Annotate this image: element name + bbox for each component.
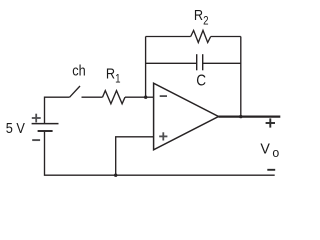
wire: op-amp output to right edge [219,115,281,117]
node: inverting input junction [144,96,147,99]
label R2 [194,6,209,27]
label R1 [106,64,121,85]
wire: battery negative terminal down to bottom rail [45,132,275,176]
label 5 V [6,119,26,136]
op-amp minus input sign [160,95,167,97]
wire: R2 right lead [211,36,241,38]
wire: R2 left lead [146,36,191,38]
resistor R2 [191,30,211,42]
wire: R1 to inverting node [125,96,146,98]
svg-text:C: C [196,72,206,89]
capacitor C plates [197,54,203,70]
node: output junction [239,115,242,118]
svg-text:5 V: 5 V [6,119,26,136]
wire: feedback right branch down to output node [240,37,242,117]
battery V1 plates [32,124,59,131]
wire: battery positive terminal up and right to switch [45,97,70,123]
battery + polarity sign [32,114,41,123]
battery - polarity sign [32,139,40,141]
label Vo [260,141,279,160]
wire: C left lead [146,62,197,64]
wire: C right lead [203,62,241,64]
op-amp U1 triangle [154,83,219,150]
svg-text:ch: ch [72,62,85,79]
label C [196,72,206,89]
wire: feedback left branch (node up to R2/C) [145,37,147,98]
resistor R1 [103,91,126,104]
switch ch blade [70,86,80,97]
wire: inverting node to op-amp minus input [146,96,154,98]
output - polarity label [267,169,275,171]
wire: noninverting input left and down to bottom rail [116,137,154,175]
output + polarity label [266,118,275,127]
label ch [72,62,85,79]
node: bottom rail junction [114,174,117,177]
wire: switch to R1 [82,96,103,98]
op-amp plus input sign [159,132,167,140]
